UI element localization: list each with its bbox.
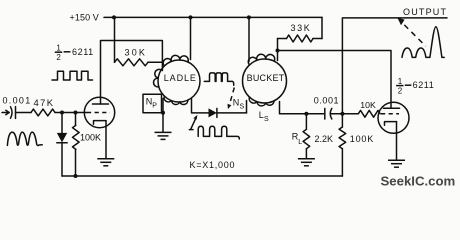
svg-text:+150 V: +150 V xyxy=(70,13,99,23)
svg-text:L: L xyxy=(259,110,264,120)
svg-text:100K: 100K xyxy=(80,133,101,143)
svg-text:S: S xyxy=(240,104,245,111)
svg-text:47K: 47K xyxy=(34,97,55,108)
svg-text:LADLE: LADLE xyxy=(164,73,197,83)
svg-text:30K: 30K xyxy=(125,47,148,57)
svg-text:BUCKET: BUCKET xyxy=(247,73,285,83)
svg-text:100K: 100K xyxy=(350,134,374,144)
svg-text:2.2K: 2.2K xyxy=(315,134,334,144)
svg-text:S: S xyxy=(264,116,269,123)
svg-text:2: 2 xyxy=(56,53,61,62)
svg-text:6211: 6211 xyxy=(413,80,435,90)
svg-text:1: 1 xyxy=(398,77,403,86)
svg-text:L: L xyxy=(298,139,302,146)
svg-text:10K: 10K xyxy=(360,100,376,110)
svg-text:1: 1 xyxy=(56,44,61,53)
svg-text:N: N xyxy=(233,98,240,108)
svg-text:0.001: 0.001 xyxy=(3,95,32,105)
svg-text:6211: 6211 xyxy=(72,47,94,57)
svg-text:K=X1,000: K=X1,000 xyxy=(190,160,236,170)
svg-text:0.001: 0.001 xyxy=(314,95,339,105)
svg-text:P: P xyxy=(152,102,157,109)
svg-text:OUTPUT: OUTPUT xyxy=(403,7,447,17)
svg-text:33K: 33K xyxy=(291,23,312,33)
svg-text:2: 2 xyxy=(398,87,403,96)
svg-text:SeekIC.com: SeekIC.com xyxy=(381,173,456,188)
